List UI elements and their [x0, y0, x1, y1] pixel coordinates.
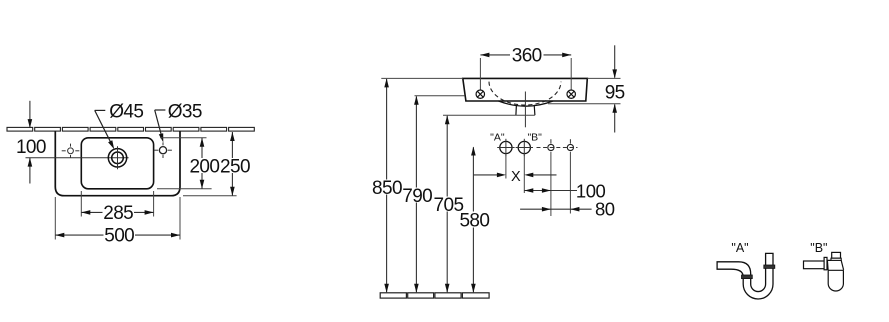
extension line outer bottom right (for 250)	[183, 195, 237, 197]
hole D35	[159, 147, 166, 154]
small cross hole 1	[548, 144, 554, 150]
svg-text:250: 250	[220, 157, 250, 178]
extension line bowl top right (for 200)	[160, 137, 207, 139]
svg-text:200: 200	[189, 157, 219, 178]
solid bowl front lip	[499, 101, 554, 106]
centerline through drain	[524, 92, 526, 128]
svg-text:850: 850	[372, 178, 402, 199]
dimension 285 (plan)	[81, 211, 153, 213]
dimension 250 (plan)	[231, 132, 233, 196]
small cross hole 2	[567, 144, 573, 150]
svg-text:X: X	[511, 169, 521, 185]
extension lines 360	[479, 58, 481, 90]
svg-text:Ø35: Ø35	[168, 102, 202, 123]
svg-text:"A": "A"	[490, 132, 505, 144]
svg-text:580: 580	[459, 210, 489, 231]
dimension X	[473, 174, 497, 176]
siphon B flange	[824, 257, 827, 269]
svg-text:500: 500	[104, 226, 134, 247]
dimension 580	[472, 147, 474, 292]
dimension 95	[614, 45, 616, 132]
siphon A coupling nut left	[742, 275, 753, 279]
dashed bowl rim arc	[489, 82, 561, 105]
centerline through tap holes	[26, 157, 129, 159]
basin body (front view)	[463, 78, 588, 101]
siphon B outlet pipe	[832, 252, 841, 258]
basin outer outline (plan view)	[55, 131, 180, 195]
siphon B body shoulder	[827, 260, 843, 270]
tap hole circle A (front)	[500, 141, 512, 153]
extension line basin top to left	[381, 77, 463, 79]
extension under circle B	[523, 154, 525, 193]
dashed line through small crosses	[537, 147, 578, 149]
fixing hole left (front)	[476, 90, 484, 98]
siphon A body (P-trap)	[717, 253, 773, 299]
siphon A coupling nut right	[764, 265, 775, 268]
left fixing hole cross	[62, 144, 80, 158]
svg-text:Ø45: Ø45	[109, 102, 143, 123]
svg-text:80: 80	[595, 198, 615, 219]
fixing hole right (front)	[567, 90, 575, 98]
tap hole circle B (front)	[518, 141, 530, 153]
dimension 850	[386, 79, 388, 292]
svg-text:790: 790	[402, 186, 432, 207]
svg-text:"B": "B"	[810, 241, 827, 255]
extension under cross 2	[569, 152, 571, 214]
floor tile hatch	[380, 293, 489, 298]
extension line basin top to right	[587, 77, 620, 79]
extension under cross 1	[550, 152, 552, 216]
extension lines bowl sides (for 285)	[80, 191, 82, 217]
dimension 790	[415, 96, 417, 292]
svg-text:"A": "A"	[731, 241, 748, 255]
dimension 80 (front)	[520, 208, 592, 210]
extension line 790 level	[415, 95, 465, 97]
extension line basin bottom right (95)	[548, 103, 621, 105]
svg-text:"B": "B"	[527, 132, 542, 144]
siphon B cup	[828, 270, 843, 291]
extension line 705 level + drain bottom	[443, 114, 535, 116]
dimension 360	[480, 54, 571, 56]
svg-text:285: 285	[103, 203, 133, 224]
siphon B inlet pipe	[804, 261, 825, 269]
dimension 100 (plan, left)	[29, 101, 31, 184]
extension line bowl bottom right (for 200)	[157, 188, 212, 190]
svg-text:360: 360	[512, 45, 542, 66]
extension under circle A	[505, 154, 507, 179]
svg-text:95: 95	[605, 82, 625, 103]
drain box	[516, 105, 535, 115]
svg-text:100: 100	[16, 137, 46, 158]
dimension 200 (plan)	[201, 138, 203, 189]
dimension 500 (plan)	[55, 234, 180, 236]
dimension 100 (front)	[524, 190, 577, 192]
extension lines outer sides (for 500)	[54, 197, 56, 240]
wall tile hatch (plan view)	[7, 127, 254, 131]
bowl inner outline (plan view)	[81, 138, 153, 189]
dimension 705	[446, 116, 448, 292]
siphon B top collar	[831, 258, 841, 260]
tap hole D45	[108, 149, 126, 167]
